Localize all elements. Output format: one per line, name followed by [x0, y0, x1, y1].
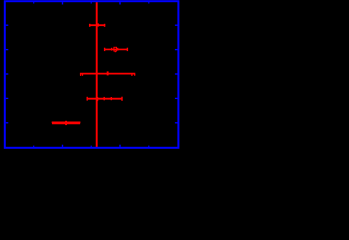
error bar row 5 marker	[65, 121, 67, 125]
error bar row 2 right cap	[126, 48, 128, 51]
error bar row 3 lower outer cap right	[134, 74, 136, 76]
error bar row 5 upper line	[52, 121, 81, 123]
y-axis tick right at row 4	[175, 97, 178, 99]
y-axis tick left at row 4	[6, 97, 9, 99]
error bar row 4 inner cap right	[110, 97, 112, 100]
error bar row 4 inner cap left	[103, 97, 105, 100]
x-axis minor tick bottom at 33.7	[33, 146, 35, 147]
error bar row 4 left cap	[86, 97, 88, 101]
error bar row 2 lower marker blob	[115, 51, 117, 52]
error bar row 1 left cap	[89, 24, 91, 27]
error bar row 2 left cap	[104, 48, 106, 51]
y-axis tick left at row 1	[6, 24, 9, 26]
error bar row 2 open marker	[114, 47, 117, 51]
plot frame	[5, 1, 179, 148]
y-axis tick left at row 2	[6, 49, 9, 51]
error bar row 3 lower inner cap left	[82, 74, 84, 76]
x-axis major tick top at 120	[119, 2, 121, 4]
x-axis major tick bottom at 62.5	[62, 145, 64, 147]
y-axis tick right at row 5	[175, 122, 178, 124]
x-axis minor tick top at 148.8	[148, 2, 150, 3]
red vertical reference line	[96, 2, 98, 147]
x-axis minor tick bottom at 148.8	[148, 146, 150, 147]
error bar row 4 right cap	[121, 97, 123, 101]
x-axis minor tick bottom at 91.2	[90, 146, 92, 147]
x-axis minor tick top at 33.7	[33, 2, 35, 3]
error bar row 3 marker	[107, 71, 109, 75]
x-axis minor tick top at 91.2	[90, 2, 92, 3]
y-axis tick left at row 5	[6, 122, 9, 124]
error bar row 2 inner stat cap left	[111, 48, 113, 51]
y-axis tick right at row 2	[175, 49, 178, 51]
x-axis major tick top at 62.5	[62, 2, 64, 4]
y-axis tick left at row 3	[6, 73, 9, 75]
x-axis major tick bottom at 120	[119, 145, 121, 147]
error bar row 2 line	[105, 48, 128, 50]
error bar row 3 line	[80, 73, 135, 75]
error bar row 1 marker	[97, 23, 99, 26]
error bar row 3 lower outer cap left	[80, 74, 82, 76]
error bar row 2 inner stat cap right	[117, 48, 119, 51]
y-axis tick right at row 3	[175, 73, 178, 75]
error bar row 4 marker	[96, 97, 98, 101]
error bar row 5 lower line	[52, 123, 80, 125]
error bar row 1 right cap	[104, 24, 106, 27]
error bar row 4 line	[87, 98, 122, 100]
y-axis tick right at row 1	[175, 24, 178, 26]
error bar row 1 line	[90, 24, 105, 26]
error bar row 3 lower inner cap right	[131, 74, 133, 76]
